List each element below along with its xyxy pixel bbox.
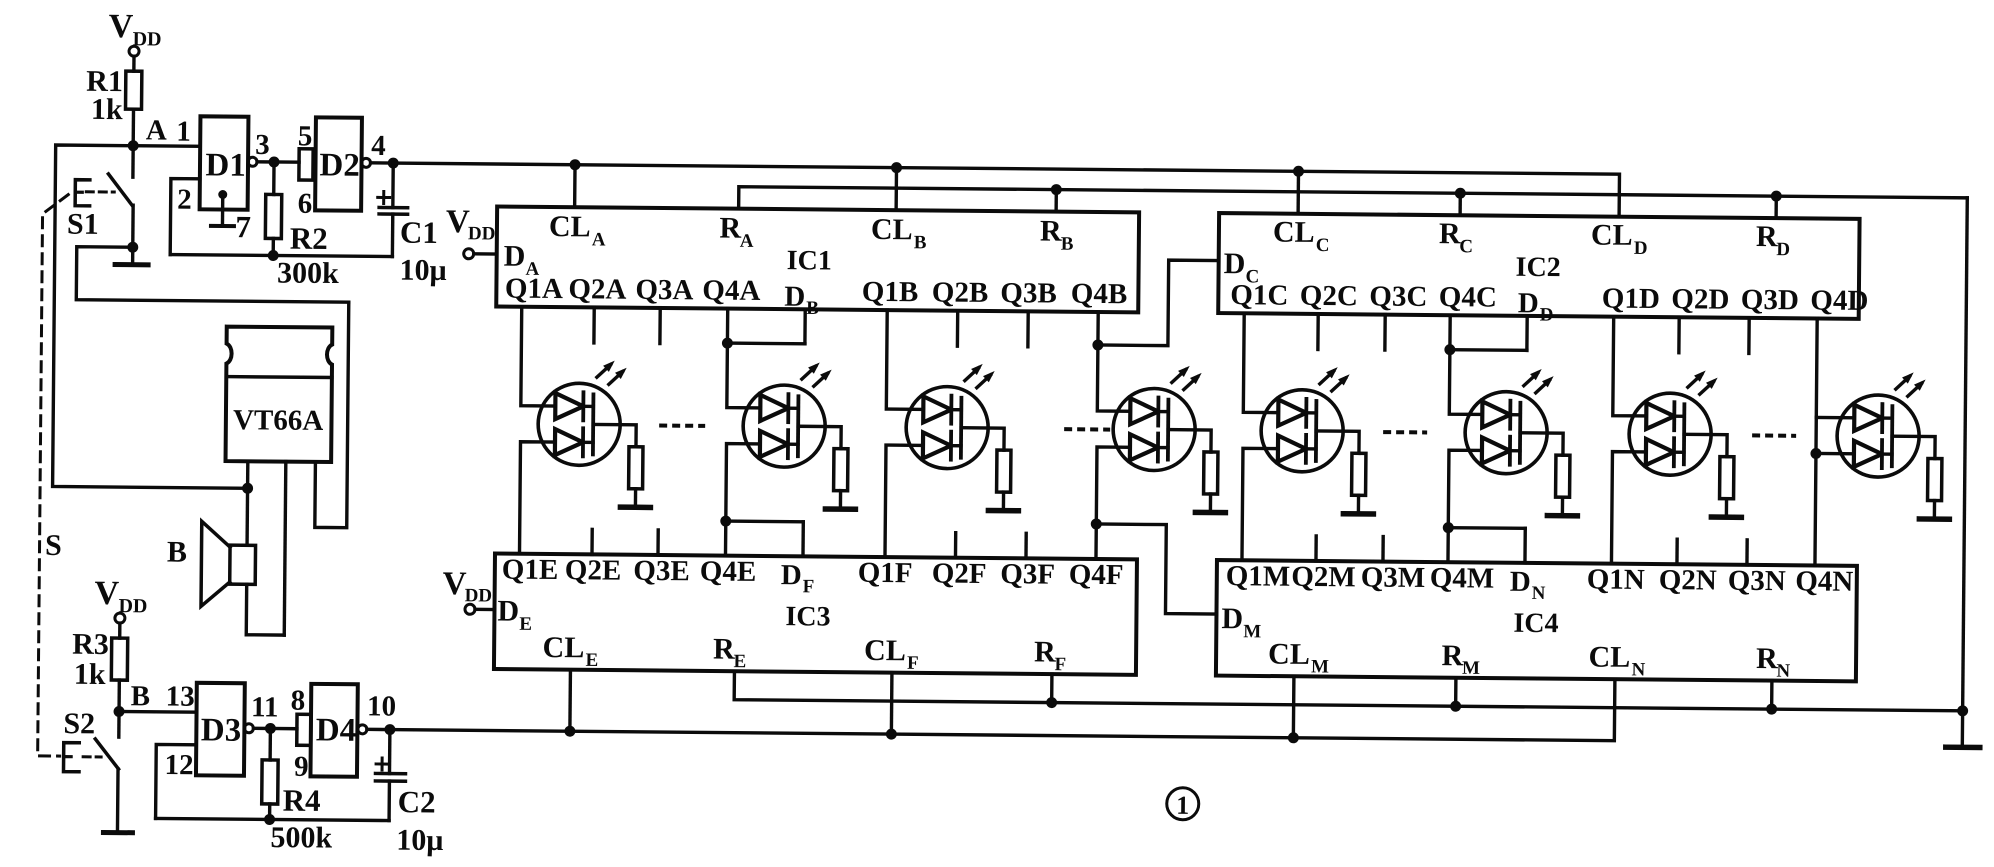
junction RF	[1046, 674, 1057, 708]
svg-text:D2: D2	[319, 147, 360, 183]
IC4 output row labels	[1226, 560, 1854, 607]
node 3	[268, 156, 279, 167]
svg-text:D: D	[1776, 239, 1790, 260]
svg-text:10μ: 10μ	[399, 254, 446, 287]
svg-text:CL: CL	[542, 631, 584, 664]
svg-text:Q1B: Q1B	[862, 276, 919, 309]
LED1 dual-diode optocoupled indicator	[538, 383, 621, 466]
LED8 anode feed wires	[1809, 318, 1855, 565]
svg-text:500k: 500k	[270, 821, 332, 855]
svg-text:1k: 1k	[91, 93, 123, 126]
LED7 emission arrows	[1686, 370, 1717, 395]
svg-text:Q2E: Q2E	[565, 554, 622, 587]
svg-text:1k: 1k	[74, 658, 106, 691]
svg-text:C: C	[1316, 235, 1330, 256]
IC1 pin labels top row	[549, 210, 1074, 255]
LED7 dual-diode optocoupled indicator	[1629, 393, 1712, 476]
svg-text:D: D	[781, 559, 802, 591]
LED4 dual-diode optocoupled indicator	[1113, 388, 1196, 471]
LED1 emission arrows	[596, 360, 627, 385]
svg-text:V: V	[94, 575, 119, 612]
svg-text:D1: D1	[205, 147, 246, 183]
LED6 cathode resistor	[1519, 433, 1570, 514]
svg-text:A: A	[740, 231, 754, 252]
LED2 emission arrows	[801, 362, 832, 387]
IC3 pin labels bottom row	[542, 631, 1066, 675]
LED7 ground	[1711, 514, 1741, 520]
VT66A leg 2 (middle)	[284, 462, 286, 635]
feedback rail D1 area	[170, 249, 392, 262]
svg-text:CL: CL	[864, 634, 906, 667]
svg-text:Q4E: Q4E	[700, 555, 757, 588]
LED6 dual-diode optocoupled indicator	[1465, 391, 1548, 474]
LED3 anode feed wires	[885, 310, 924, 557]
svg-text:D4: D4	[316, 712, 357, 748]
svg-text:Q1M: Q1M	[1226, 560, 1291, 593]
svg-text:DD: DD	[133, 28, 162, 50]
svg-text:IC1: IC1	[787, 245, 832, 276]
svg-text:N: N	[1532, 583, 1546, 604]
stub pin Q2A	[592, 307, 596, 342]
svg-text:VT66A: VT66A	[233, 404, 324, 437]
IC1 output row labels	[505, 273, 1128, 322]
LED8 emission arrows	[1894, 372, 1925, 397]
LED2 anode feed wires	[725, 309, 761, 556]
svg-text:Q3F: Q3F	[1000, 558, 1055, 590]
LED6 anode feed wires	[1448, 315, 1483, 562]
ellipsis dashes between LED3 and LED4	[1064, 427, 1110, 431]
LED1 anode feed wires	[519, 307, 556, 554]
svg-text:D3: D3	[201, 712, 242, 748]
resistor R2	[265, 162, 340, 290]
gate D4	[310, 684, 367, 777]
D1 pin 2 wire	[170, 179, 200, 255]
IC3	[494, 554, 1137, 675]
feedback rail D3 area	[156, 813, 390, 826]
LED3 ground	[988, 508, 1018, 514]
svg-text:1: 1	[176, 116, 191, 148]
junction CLF	[886, 673, 898, 740]
stub pin Q2E	[590, 529, 594, 554]
stub pin Q3B	[1026, 311, 1030, 346]
svg-text:S1: S1	[67, 208, 99, 241]
D4 input pins 8 and 9 block	[290, 685, 311, 783]
svg-text:B: B	[167, 536, 187, 569]
stub pin Q3C	[1383, 315, 1387, 350]
D2 input pins 5 and 6 block	[297, 120, 313, 220]
node 11	[265, 723, 276, 734]
wire node B to D3 pin 13	[119, 680, 197, 713]
svg-text:3: 3	[255, 129, 270, 161]
stub pin Q2D	[1677, 317, 1681, 352]
junction RB	[1051, 184, 1062, 212]
resistor R4	[261, 728, 333, 854]
svg-text:D: D	[1540, 304, 1554, 325]
svg-text:V: V	[443, 566, 467, 602]
svg-text:10μ: 10μ	[396, 824, 443, 857]
junction RD	[1771, 191, 1782, 219]
LED3 cathode resistor	[960, 428, 1011, 509]
svg-text:D: D	[504, 240, 526, 273]
IC4	[1216, 560, 1857, 681]
svg-text:E: E	[585, 650, 598, 671]
svg-text:Q3M: Q3M	[1361, 561, 1426, 594]
svg-text:E: E	[733, 651, 746, 672]
svg-text:Q4M: Q4M	[1430, 562, 1495, 595]
svg-text:10: 10	[367, 690, 396, 722]
LED7 anode feed wires	[1611, 317, 1647, 564]
junction RN	[1766, 681, 1777, 715]
svg-text:S: S	[45, 529, 62, 562]
figure number 1 (circled)	[1167, 788, 1199, 820]
svg-text:Q4C: Q4C	[1439, 281, 1497, 314]
wire D2 output to node 4	[371, 130, 394, 163]
svg-text:M: M	[1311, 656, 1329, 677]
svg-text:5: 5	[298, 120, 313, 152]
svg-text:11: 11	[251, 691, 279, 723]
capacitor C2	[375, 729, 445, 857]
svg-text:DD: DD	[468, 223, 496, 244]
node 4	[388, 158, 399, 169]
svg-text:Q3E: Q3E	[633, 555, 690, 588]
svg-text:D: D	[1224, 247, 1246, 280]
ground at S1	[115, 247, 148, 265]
svg-text:R: R	[1441, 639, 1463, 672]
svg-text:CL: CL	[871, 213, 913, 246]
svg-text:C1: C1	[400, 215, 438, 250]
reset bus RA-RD	[739, 187, 1968, 220]
junction RC	[1455, 188, 1466, 216]
svg-text:2: 2	[177, 184, 192, 216]
svg-text:300k: 300k	[277, 257, 339, 291]
LED1 cathode resistor	[592, 424, 643, 505]
wire DD to Q4C column	[1444, 315, 1527, 356]
ellipsis dashes between LED1 and LED2	[659, 423, 705, 427]
svg-text:M: M	[1243, 621, 1261, 642]
wire node3 to D2 inputs 5/6	[274, 160, 299, 164]
svg-text:1: 1	[1176, 791, 1189, 820]
svg-text:Q1F: Q1F	[858, 557, 913, 589]
wire node A to D1 pin 1	[133, 115, 200, 148]
IC3 output row labels	[502, 554, 1124, 601]
svg-text:R: R	[1756, 642, 1778, 675]
LED4 cathode resistor	[1167, 430, 1218, 511]
wire DB to Q4A column	[722, 309, 805, 350]
svg-text:Q1C: Q1C	[1230, 279, 1288, 312]
stub pin Q3N	[1745, 540, 1749, 565]
svg-text:CL: CL	[1588, 640, 1630, 673]
svg-text:R: R	[1756, 220, 1778, 253]
svg-text:Q2N: Q2N	[1659, 564, 1717, 597]
power terminal VDD (bottom left)	[94, 575, 147, 638]
clock bus CLA-CLD (from node 4)	[393, 163, 1620, 217]
LED8 dual-diode optocoupled indicator	[1837, 395, 1920, 478]
LED1 ground	[620, 504, 650, 510]
clock bus CLE-CLN (from node 10)	[390, 668, 1615, 741]
junction CLC	[1293, 166, 1304, 214]
svg-text:Q1N: Q1N	[1587, 563, 1645, 596]
svg-text:R: R	[719, 212, 741, 245]
IC2 output row labels	[1230, 279, 1868, 328]
label VDD top-left	[109, 8, 162, 50]
junction CLE	[564, 670, 576, 737]
speaker B	[167, 521, 256, 607]
IC2	[1218, 213, 1859, 319]
svg-text:CL: CL	[1268, 638, 1310, 671]
stub pin Q3E	[656, 530, 660, 555]
LED4 ground	[1195, 510, 1225, 516]
LED4 anode feed wires	[1096, 312, 1131, 559]
svg-text:C2: C2	[398, 784, 436, 819]
svg-text:N: N	[1631, 659, 1645, 680]
svg-text:F: F	[803, 576, 815, 597]
gate D1	[200, 116, 258, 210]
svg-text:Q4F: Q4F	[1069, 559, 1124, 591]
stub pin Q2B	[956, 311, 960, 346]
wire DC to Q4B column	[1092, 259, 1218, 351]
stub pin Q2C	[1316, 314, 1320, 349]
LED5 emission arrows	[1318, 367, 1349, 392]
LED8 ground	[1919, 516, 1949, 522]
svg-text:R4: R4	[283, 783, 321, 818]
LED5 cathode resistor	[1315, 431, 1366, 512]
switch S2	[62, 707, 119, 831]
stub pin Q3D	[1747, 318, 1751, 353]
svg-text:A: A	[146, 114, 167, 146]
svg-text:IC2: IC2	[1515, 252, 1560, 283]
LED4 emission arrows	[1171, 366, 1202, 391]
wire D1 output to node 3	[255, 129, 274, 162]
stub pin Q2F	[954, 533, 958, 558]
svg-text:CL: CL	[1591, 218, 1633, 251]
stub pin Q2N	[1675, 539, 1679, 564]
LED5 ground	[1343, 511, 1373, 517]
IC4 pin labels bottom row	[1268, 638, 1791, 682]
svg-text:D: D	[1634, 238, 1648, 259]
D3 pin 12 wire	[156, 744, 197, 818]
IC1 (dual D flip-flop)	[496, 207, 1139, 313]
svg-text:R: R	[1439, 217, 1461, 250]
svg-text:CL: CL	[1273, 216, 1315, 249]
svg-text:D: D	[497, 595, 519, 628]
svg-text:Q3N: Q3N	[1728, 565, 1786, 598]
svg-text:7: 7	[235, 209, 251, 244]
LED8 cathode resistor	[1891, 436, 1942, 517]
ellipsis dashes between LED5 and LED6	[1383, 430, 1427, 434]
IC2 label DC and IC2	[1223, 247, 1560, 290]
svg-text:4: 4	[371, 130, 386, 162]
node A	[128, 114, 167, 151]
svg-text:C: C	[1459, 236, 1473, 257]
svg-text:Q1D: Q1D	[1602, 283, 1660, 316]
LED2 dual-diode optocoupled indicator	[743, 385, 826, 468]
svg-text:IC4: IC4	[1513, 608, 1558, 639]
svg-text:B: B	[806, 298, 819, 319]
gate D3	[196, 683, 254, 776]
svg-text:R3: R3	[72, 628, 109, 661]
LED7 cathode resistor	[1683, 434, 1734, 515]
svg-text:E: E	[519, 614, 532, 635]
LED5 anode feed wires	[1242, 313, 1279, 560]
svg-text:IC3: IC3	[785, 601, 830, 632]
LED2 cathode resistor	[797, 426, 848, 507]
svg-text:B: B	[131, 680, 151, 712]
svg-text:Q4B: Q4B	[1071, 278, 1128, 311]
LED2 ground	[825, 506, 855, 512]
svg-text:13: 13	[166, 681, 195, 713]
IC4 label DM and IC4	[1221, 602, 1558, 645]
power terminal VDD at IC3 DE input	[442, 566, 494, 614]
svg-text:8: 8	[291, 685, 306, 717]
wire DN to Q4M column	[1442, 522, 1525, 563]
svg-text:12: 12	[164, 749, 193, 781]
svg-text:CL: CL	[549, 210, 591, 243]
ground at S2	[103, 830, 132, 835]
IC2 pin labels top row	[1273, 216, 1791, 261]
svg-text:Q2A: Q2A	[568, 273, 626, 306]
resistor R1	[125, 71, 142, 141]
wire D3 output to node 11	[251, 691, 279, 728]
wire node A left and down to VT66A	[53, 145, 251, 488]
junction CLB	[891, 162, 902, 210]
stub pin Q3M	[1381, 537, 1385, 562]
junction RM	[1450, 678, 1461, 712]
VT66A leg 3 (right) to riser	[315, 302, 349, 528]
stub pin Q3F	[1024, 533, 1028, 558]
LED6 ground	[1547, 513, 1577, 519]
svg-text:Q4D: Q4D	[1810, 284, 1868, 317]
power terminal VDD at IC1 DA input	[446, 204, 497, 259]
switch S1	[67, 145, 139, 253]
label R1 1k	[86, 65, 124, 126]
D1 pin 7 ground	[211, 190, 251, 244]
capacitor C1	[377, 163, 448, 287]
power terminal VDD (top left)	[129, 46, 139, 71]
svg-text:Q1A: Q1A	[505, 273, 563, 306]
svg-text:Q3A: Q3A	[635, 274, 693, 307]
svg-text:V: V	[446, 204, 470, 240]
svg-text:D: D	[1510, 566, 1531, 598]
svg-text:R: R	[713, 632, 735, 665]
stub pin Q3A	[658, 308, 662, 343]
svg-text:Q2B: Q2B	[932, 276, 989, 309]
svg-text:R: R	[1034, 635, 1056, 668]
wire D4 output to node 10	[367, 690, 396, 729]
svg-text:Q2M: Q2M	[1291, 561, 1356, 594]
svg-text:B: B	[914, 232, 927, 253]
ellipsis dashes between LED7 and LED8	[1752, 433, 1796, 437]
svg-text:D: D	[1221, 602, 1243, 635]
resistor R3	[71, 628, 127, 737]
node B	[113, 680, 150, 717]
VT66A leg 1 (left)	[242, 461, 254, 545]
wire DF to Q4E column	[720, 516, 803, 557]
LED3 dual-diode optocoupled indicator	[906, 386, 989, 469]
svg-text:Q3B: Q3B	[1000, 277, 1057, 310]
svg-text:N: N	[1776, 661, 1790, 682]
wire speaker to leg2	[246, 584, 284, 635]
LED5 dual-diode optocoupled indicator	[1261, 389, 1344, 472]
LED3 emission arrows	[964, 364, 995, 389]
svg-text:Q3D: Q3D	[1741, 284, 1799, 317]
wire DM to Q4F column	[1090, 518, 1217, 614]
svg-text:Q1E: Q1E	[502, 554, 559, 587]
svg-text:Q2F: Q2F	[932, 557, 987, 589]
svg-text:9: 9	[294, 751, 309, 783]
svg-text:Q3C: Q3C	[1369, 280, 1427, 313]
svg-text:R2: R2	[290, 221, 328, 256]
LED6 emission arrows	[1522, 369, 1553, 394]
transistor module VT66A	[226, 327, 333, 462]
svg-text:F: F	[907, 653, 919, 674]
gate D2	[315, 117, 371, 210]
svg-text:Q4N: Q4N	[1795, 565, 1853, 598]
svg-text:M: M	[1462, 658, 1480, 679]
svg-text:A: A	[592, 229, 606, 250]
stub pin Q2M	[1314, 536, 1318, 561]
svg-text:R: R	[1040, 214, 1062, 247]
reset bus RE-RN	[734, 671, 1963, 711]
dashed link S (ganged switches S1-S2)	[38, 194, 69, 756]
svg-text:B: B	[1061, 234, 1074, 255]
svg-text:S2: S2	[63, 707, 95, 740]
svg-text:6: 6	[298, 188, 313, 220]
svg-text:D: D	[784, 281, 805, 313]
svg-text:Q2D: Q2D	[1671, 283, 1729, 316]
junction CLA	[569, 159, 580, 207]
svg-text:F: F	[1054, 654, 1066, 675]
junction CLM	[1288, 676, 1300, 743]
svg-text:V: V	[109, 8, 134, 45]
IC1 label DA and IC1	[503, 240, 831, 283]
IC3 label DE and IC3	[497, 595, 830, 638]
right bus riser to ground rail	[1963, 198, 1968, 711]
wire S1 to VT66A pin3 riser	[76, 247, 349, 302]
wire node11 to D4 inputs 8/9	[270, 727, 296, 731]
ground at right bus end	[1946, 705, 1980, 747]
node 10	[384, 724, 395, 735]
svg-text:Q2C: Q2C	[1300, 280, 1358, 313]
svg-text:Q4A: Q4A	[702, 274, 760, 307]
